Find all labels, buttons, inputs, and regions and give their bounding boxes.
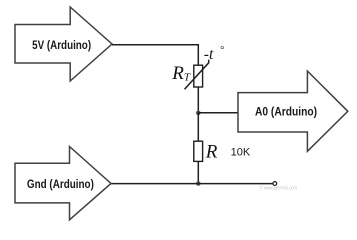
thermistor RT body: [194, 65, 203, 87]
svg-text:A0 (Arduino): A0 (Arduino): [255, 105, 317, 119]
wire 5V tip to thermistor top: [112, 45, 198, 65]
wire node A to resistor R: [197, 113, 199, 142]
svg-text:Gnd (Arduino): Gnd (Arduino): [27, 177, 94, 191]
svg-text:R: R: [205, 142, 218, 163]
svg-text:10K: 10K: [231, 147, 251, 159]
wire resistor to ground rail: [197, 161, 199, 183]
node A junction dot: [196, 111, 201, 116]
open terminal: [273, 182, 277, 186]
wire thermistor to node A: [197, 87, 199, 113]
ground junction dot: [196, 181, 201, 186]
thermistor RT diagonal stroke: [185, 60, 209, 90]
svg-text:5V (Arduino): 5V (Arduino): [32, 38, 91, 52]
resistor R body: [194, 141, 203, 161]
arrow Gnd (Arduino): [15, 147, 111, 220]
svg-text:-t°: -t°: [204, 45, 224, 63]
wire node A to A0 arrow: [198, 112, 238, 114]
arrow A0 (Arduino): [238, 71, 348, 151]
ground rail wire: [111, 183, 273, 185]
svg-text:© www.petervis.com: © www.petervis.com: [260, 185, 298, 192]
svg-text:RT: RT: [171, 63, 191, 84]
arrow 5V (Arduino): [15, 7, 112, 81]
